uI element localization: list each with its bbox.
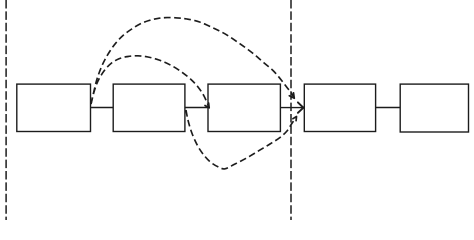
arrow box3-box4 [280, 107, 302, 109]
box 3 [208, 84, 280, 131]
box 5 [400, 84, 468, 132]
arrowhead big arc [289, 93, 294, 99]
box 1 [17, 84, 91, 131]
arrowhead small arc [205, 103, 209, 108]
wire box2-box3 [185, 107, 208, 109]
big dashed arc box1 to box4 junction [91, 18, 294, 104]
wire box4-box5 [376, 107, 401, 109]
left dashed boundary line [5, 0, 7, 220]
box 4 [304, 84, 375, 131]
box 2 [113, 84, 185, 131]
arrowhead bottom curve [293, 117, 297, 121]
right dashed boundary line [290, 0, 292, 220]
wire box1-box2 [91, 107, 114, 109]
small dashed arc box1 to box3 junction [91, 56, 209, 108]
bottom dashed curve box2 junction to box4 junction [186, 110, 297, 169]
